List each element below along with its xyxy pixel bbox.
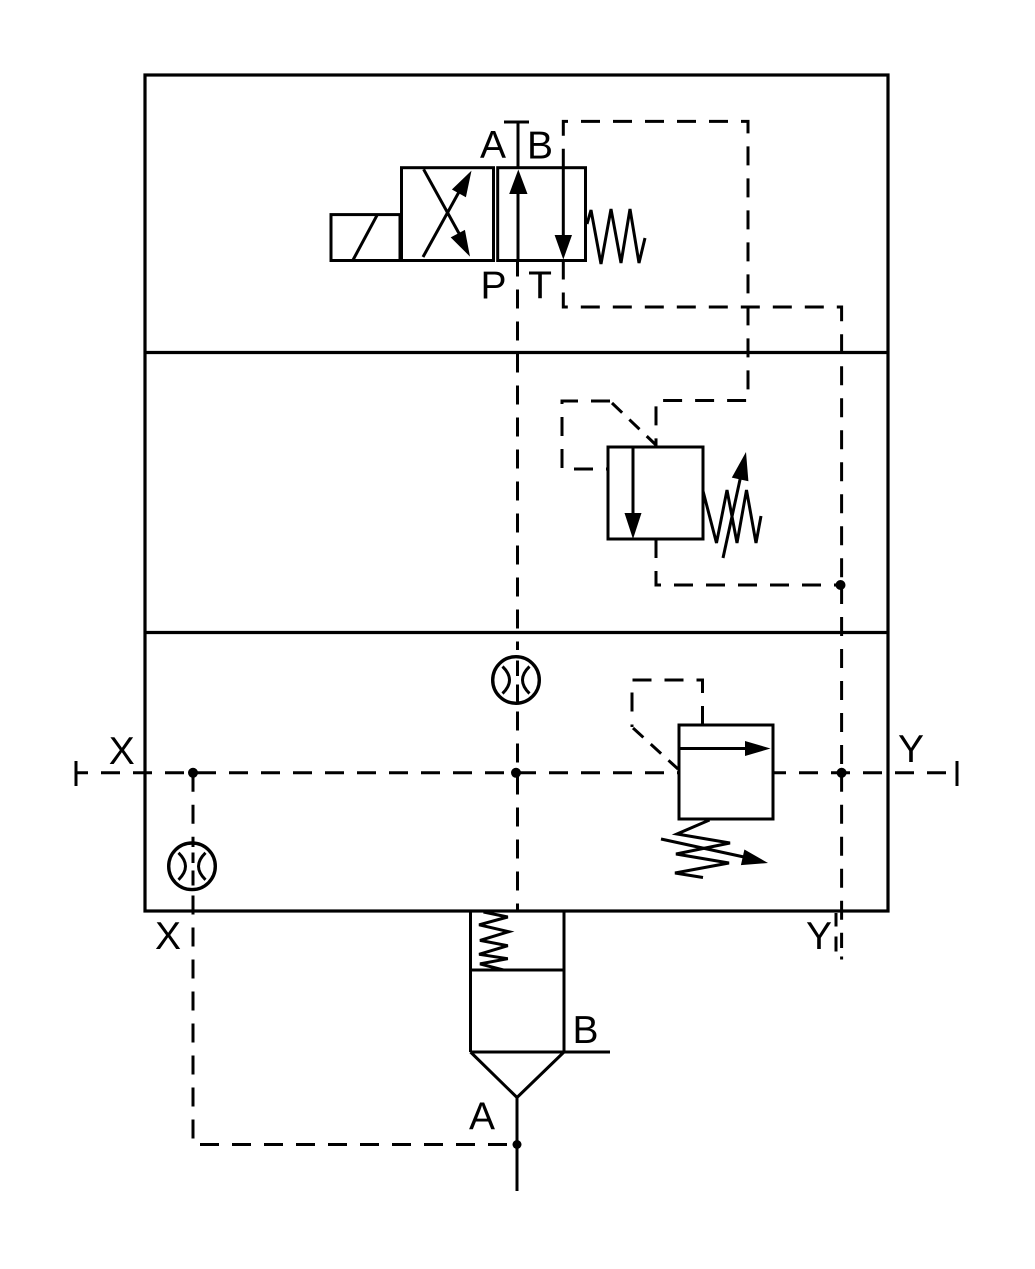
pilot line from V1 port B to reducing valve top [563,121,748,447]
X-Y line right end tick [956,761,959,786]
reducing valve adjustment arrow [723,452,748,558]
pressure reducing valve body [608,447,703,539]
X-Y pilot gallery dashed line left part [76,771,679,774]
P supply gallery vertical dashed line lower [516,712,519,912]
cartridge valve sleeve right edge [563,911,566,1052]
V1 crossed-position arrow P-to-B [423,171,472,257]
cartridge valve spring [479,912,509,970]
junction dot X gallery [188,768,198,778]
Y drain line below manifold [840,773,843,948]
relief valve pilot dashed line [632,680,703,727]
reducing valve pilot sensing dashed box [562,401,610,469]
junction dot P gallery [511,768,521,778]
svg-text:B: B [527,124,553,167]
cartridge valve spring chamber bottom [471,969,565,972]
V1 crossed-position arrow A-to-T [424,169,470,256]
V1 solenoid [331,215,400,261]
port A line [516,1098,519,1192]
junction dot Y gallery [837,768,847,778]
reducing valve internal flow arrow [625,447,642,539]
X pilot line vertical below X-Y gallery [192,773,195,847]
svg-text:Y: Y [898,728,924,771]
Y drain line end mark [840,957,843,960]
X-Y line left end tick [75,761,78,786]
Y drain gallery vertical line [840,585,843,773]
relief valve pilot diagonal dashed line [633,728,678,769]
junction dot drain/Y [836,580,846,590]
svg-text:A: A [480,124,506,167]
directional valve V1 body right square (parallel position) [498,168,586,261]
manifold section divider 1 [145,351,888,354]
X pilot line vertical and horizontal to port A line [193,896,517,1145]
relief valve internal flow arrow [679,741,771,756]
V1 parallel-position down arrow B-to-T [555,168,572,260]
V1 parallel-position up arrow P-to-A [509,170,527,261]
svg-text:X: X [109,730,135,773]
reducing valve drain line to Y gallery [656,539,841,585]
svg-text:B: B [572,1009,598,1052]
reducing valve pilot diagonal dashed line [612,403,656,445]
measuring port M2 circle [169,843,216,890]
X pilot dashes inside measuring circle [192,853,195,886]
pilot line from V1 port T to Y drain gallery [563,261,841,586]
manifold section divider 2 [145,631,888,634]
reducing valve spring [703,490,761,543]
relief valve adjustment arrow [661,839,768,865]
svg-text:Y: Y [806,915,832,958]
cartridge valve poppet triangle [471,1052,565,1098]
V1 port A plugged line [504,122,529,168]
relief valve spring [675,820,730,878]
svg-text:P: P [480,264,506,307]
svg-text:T: T [528,264,552,307]
V1 return spring [587,209,645,264]
svg-text:X: X [155,915,181,958]
cartridge valve sleeve left edge [469,911,472,1052]
svg-text:A: A [469,1096,495,1139]
P gallery dashes inside measuring circle [516,661,519,702]
directional valve V1 body left square (crossed position) [402,168,494,261]
junction dot port A / X pilot [513,1140,522,1149]
pressure relief valve body [679,725,773,819]
X-Y pilot gallery dashed line right part [773,771,957,774]
measuring port M1 circle [493,657,540,704]
Y port double tick marks [835,913,838,952]
manifold block outline [145,75,888,911]
P supply gallery vertical dashed line upper [516,261,519,651]
cartridge valve seat line and B port line [471,1051,611,1054]
